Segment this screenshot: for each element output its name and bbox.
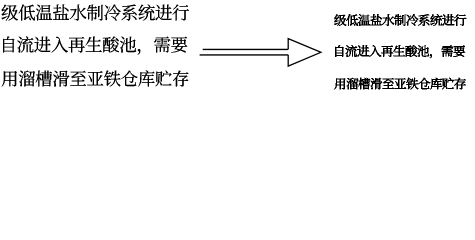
left block text line 1: 级低温盐水制冷系统进行 [2, 4, 189, 20]
left block text line 2: 自流进入再生酸池，需要 [3, 36, 187, 54]
arrow head (hollow triangle) [288, 39, 321, 67]
right block text line 3: 用溜槽滑至亚铁仓库贮存 [334, 78, 465, 90]
arrow shaft bottom line [200, 54, 289, 56]
left block text line 3: 用溜槽滑至亚铁仓库贮存 [2, 70, 189, 86]
right block text line 1: 级低温盐水制冷系统进行 [334, 14, 466, 26]
right block text line 2: 自流进入再生酸池，需要 [336, 45, 465, 58]
arrow shaft top line [203, 48, 289, 50]
